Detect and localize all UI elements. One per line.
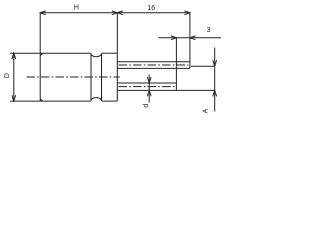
dimension A arrow up [213,90,217,96]
body top-left chamfer [40,53,43,55]
svg-text:16: 16 [147,5,155,12]
dimension 3 arrow right (points left at x=189.9) [190,36,196,40]
upper lead bottom edge [117,67,190,68]
svg-text:d: d [143,104,150,108]
lower lead tip face + dim-3 extension vertical [175,38,177,91]
body bottom edge left segment [10,100,91,102]
body top edge left segment [10,52,91,54]
dimension A extension bottom line [176,89,214,91]
groove left edge [90,53,92,101]
dimension A arrow down [213,60,217,66]
extension + body right face vertical [116,13,118,101]
svg-text:H: H [74,5,79,12]
dimension d arrow down [147,77,151,83]
groove right edge [101,53,103,101]
extension + upper lead tip face vertical [189,13,191,69]
dimension 16 line [117,12,190,14]
dimension D arrow down [12,95,16,101]
body top edge right segment [102,52,118,54]
body bottom edge right segment [102,100,118,102]
svg-text:D: D [4,73,11,78]
dimension d arrow up [147,90,151,96]
groove top arc [91,54,102,57]
body bottom-left chamfer [40,99,43,101]
dimension 16 arrow left [117,11,123,15]
dimension A vertical line [214,48,216,112]
dimension H arrow left [40,11,46,15]
upper lead centerline [119,64,189,66]
extension + body left face vertical [39,13,41,101]
lower lead bottom edge [117,89,176,91]
svg-text:A: A [203,108,210,113]
dimension H line [40,12,117,14]
body centerline [27,76,120,78]
lower lead top edge [117,82,176,84]
upper lead top edge [117,61,190,63]
svg-text:3: 3 [207,27,211,34]
lower lead centerline [119,86,175,88]
dimension 3 arrow left (points right at x=176.4) [171,36,177,40]
dimension A extension top line [191,65,215,67]
dimension D arrow up [12,53,16,59]
groove bottom arc [91,98,102,101]
dimension 16 arrow right [184,11,190,15]
dimension H arrow right [112,11,118,15]
dimension d line [148,75,150,103]
dimension 3 line [159,37,222,39]
dimension D line [13,53,15,101]
